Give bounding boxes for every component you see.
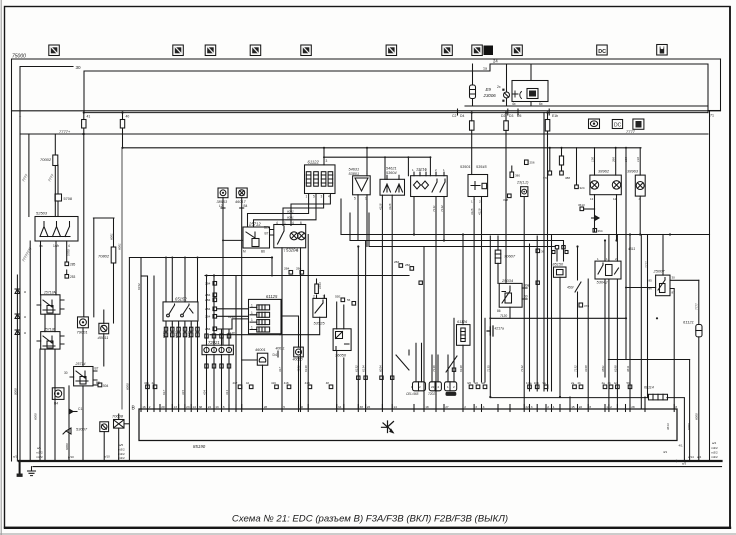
svg-text:27: 27 (445, 405, 449, 409)
svg-text:7132: 7132 (520, 365, 524, 372)
wires 5304J (605, 235, 617, 410)
wire 53204 drops (282, 248, 301, 409)
svg-text:22: 22 (579, 405, 583, 409)
svg-text:324: 324 (580, 186, 585, 190)
svg-text:E5: E5 (468, 381, 472, 385)
terminal left (17, 461, 23, 477)
wire line L1 (341, 234, 710, 236)
wire x28.9 (28, 134, 30, 217)
op-amp 54631 (353, 148, 371, 195)
svg-text:2B4: 2B4 (205, 293, 211, 297)
bottom right labels (663, 441, 718, 466)
svg-text:2B4: 2B4 (205, 327, 211, 331)
svg-text:4/1: 4/1 (663, 450, 668, 454)
svg-text:25007: 25007 (653, 269, 666, 274)
wires 72021 drops (207, 355, 230, 409)
svg-text:30: 30 (672, 276, 676, 280)
svg-text:86: 86 (497, 309, 501, 313)
svg-text:6001: 6001 (287, 216, 294, 220)
svg-text:D2: D2 (501, 114, 505, 118)
wires 36050 legs (337, 302, 344, 409)
wires 61122 drops (248, 194, 331, 228)
wire x100 x118 drops (104, 414, 119, 461)
wire line L2 (350, 213, 564, 248)
svg-text:D4: D4 (273, 353, 277, 357)
svg-text:5: 5 (313, 195, 315, 199)
svg-text:B4: B4 (244, 204, 248, 208)
svg-text:413: 413 (225, 390, 229, 395)
lamp 38963 (635, 175, 645, 196)
svg-text:m3/2: m3/2 (711, 446, 718, 450)
switch unit 65152 (163, 302, 198, 324)
wire bus 275 (205, 275, 409, 277)
icon circle box lower (52, 388, 64, 400)
wire extra verticals right field (236, 113, 645, 409)
svg-text:61121: 61121 (683, 320, 694, 325)
svg-text:4611: 4611 (628, 247, 635, 251)
stubs 2B4 row on 275 line (289, 264, 414, 274)
ECU connector B box (139, 405, 677, 441)
svg-text:38: 38 (199, 405, 203, 409)
svg-text:253: 253 (70, 275, 76, 279)
svg-text:52503: 52503 (36, 211, 48, 216)
wires below 25713B (45, 349, 55, 461)
svg-text:8: 8 (589, 405, 591, 409)
label n 71 (710, 114, 714, 118)
wire x630 (629, 235, 631, 410)
svg-text:16: 16 (142, 405, 146, 409)
svg-text:a: a (24, 290, 26, 294)
svg-text:136: 136 (624, 157, 628, 162)
svg-text:85190: 85190 (193, 444, 206, 449)
switch 450 (575, 247, 581, 378)
svg-text:E1b: E1b (552, 114, 558, 118)
relay 52503 (35, 217, 78, 242)
svg-text:4151: 4151 (297, 365, 301, 372)
wire 79001 legs (82, 134, 85, 367)
svg-text:72021: 72021 (428, 392, 437, 396)
svg-text:2B4: 2B4 (394, 260, 400, 264)
svg-text:7132: 7132 (440, 205, 444, 212)
wire 6148 line (210, 334, 280, 336)
svg-text:378: 378 (503, 198, 508, 202)
svg-text:71: 71 (710, 114, 714, 118)
svg-text:a/1: a/1 (37, 446, 42, 450)
wires 25007 bottom (625, 280, 699, 409)
svg-text:7131: 7131 (432, 205, 436, 212)
svg-text:1a: 1a (483, 67, 487, 71)
svg-text:53501: 53501 (460, 165, 471, 169)
wire x490 (489, 236, 491, 397)
wire x129.4 (128, 258, 130, 461)
svg-text:28: 28 (264, 405, 268, 409)
stub 364 (593, 229, 597, 233)
svg-text:B6: B6 (261, 250, 265, 254)
svg-text:41B: 41B (305, 381, 310, 385)
svg-text:30a: 30a (524, 284, 530, 288)
icon 23(1,2) (516, 181, 528, 185)
svg-text:54631: 54631 (349, 168, 360, 172)
svg-text:4: 4 (68, 244, 70, 248)
fuse 70802 (111, 247, 116, 323)
stub 285 (65, 262, 69, 266)
label 75000 (12, 54, 26, 60)
svg-text:23006: 23006 (483, 93, 497, 98)
svg-text:5700: 5700 (67, 249, 71, 256)
svg-text:30: 30 (76, 65, 82, 70)
svg-text:2b: 2b (578, 381, 582, 385)
wire x576 (575, 148, 579, 189)
icon 79001 (78, 317, 89, 328)
svg-text:m3/2: m3/2 (711, 451, 718, 455)
icon box row2 a (589, 119, 600, 129)
wire 7777 diag marks (21, 173, 55, 263)
svg-text:4198: 4198 (584, 365, 588, 372)
svg-text:E6: E6 (475, 381, 479, 385)
svg-text:4118: 4118 (378, 203, 382, 210)
svg-text:3: 3 (531, 405, 533, 409)
svg-text:Схема № 21: EDC (разъем B) F3A: Схема № 21: EDC (разъем B) F3A/F3B (ВКЛ)… (232, 514, 508, 525)
wires connector feeds (416, 343, 454, 382)
wire x341 (340, 199, 342, 235)
wire x358 x365 (358, 241, 365, 410)
svg-text:26: 26 (367, 405, 371, 409)
fuse F-E1 (545, 113, 550, 391)
svg-text:5304J: 5304J (597, 279, 609, 284)
svg-text:D5: D5 (517, 114, 521, 118)
svg-text:7130: 7130 (500, 314, 507, 318)
svg-text:450/: 450/ (567, 286, 575, 290)
svg-text:7: 7 (284, 249, 286, 253)
svg-text:1: 1 (553, 405, 555, 409)
relay 25714 (70, 367, 97, 386)
svg-text:4: 4 (276, 221, 278, 225)
svg-text:434: 434 (203, 390, 207, 395)
svg-text:18: 18 (425, 405, 429, 409)
fuse small drop (559, 148, 563, 175)
svg-text:24: 24 (493, 59, 498, 64)
resistor 61126 (457, 325, 471, 346)
icon 38963L (218, 188, 228, 198)
wires below 52503 (30, 241, 66, 461)
svg-text:7777: 7777 (626, 129, 636, 134)
lamp unit 38962 (590, 175, 621, 195)
svg-text:22: 22 (431, 385, 435, 389)
svg-text:285: 285 (70, 263, 76, 267)
node C1 (69, 409, 77, 414)
bus line 30-feed top (12, 59, 721, 111)
svg-text:53604: 53604 (386, 171, 397, 175)
wire x121.3 long (121, 148, 123, 409)
svg-text:30: 30 (300, 405, 304, 409)
wire line 397 (490, 398, 684, 461)
svg-text:25714: 25714 (75, 362, 86, 366)
wire B4 drop (240, 198, 257, 360)
svg-text:8: 8 (675, 405, 677, 409)
wire x141 (140, 258, 142, 409)
wire x625 (625, 148, 627, 318)
svg-text:5708: 5708 (64, 197, 72, 201)
svg-text:431: 431 (144, 381, 149, 385)
svg-text:7777: 7777 (694, 303, 698, 310)
stub 380 (510, 166, 514, 178)
svg-text:1: 1 (251, 303, 253, 307)
relay 23006 contact (502, 64, 521, 106)
wire x698.8 column (698, 280, 700, 324)
svg-text:0000: 0000 (13, 388, 17, 395)
svg-text:7135: 7135 (486, 365, 490, 372)
svg-text:6000: 6000 (694, 413, 698, 420)
svg-text:7136: 7136 (432, 365, 436, 372)
svg-text:40011: 40011 (98, 335, 109, 340)
svg-text:6000: 6000 (65, 443, 69, 450)
wire long mid line A (7777) (20, 133, 708, 135)
svg-text:L2: L2 (219, 204, 223, 208)
ground symbol (28, 467, 36, 476)
relay 25713A (37, 295, 64, 314)
svg-text:1: 1 (323, 294, 325, 298)
svg-text:13: 13 (215, 405, 219, 409)
label 40011 D4 (273, 346, 285, 357)
svg-text:132: 132 (636, 157, 640, 162)
svg-text:4a: 4a (602, 381, 606, 385)
wire labels mid verticals (137, 283, 691, 430)
wire 85150 drop (559, 277, 561, 397)
resistor pack 61122 (305, 165, 336, 194)
svg-text:a/1: a/1 (13, 455, 18, 459)
label 6000 wires left (13, 233, 129, 450)
svg-text:4614: 4614 (666, 423, 670, 430)
svg-text:m3/2: m3/2 (36, 455, 43, 459)
svg-text:28: 28 (631, 405, 635, 409)
svg-text:2B4: 2B4 (296, 267, 302, 271)
svg-text:B7: B7 (265, 232, 269, 236)
svg-text:25713A: 25713A (43, 291, 56, 295)
svg-text:DC: DC (598, 49, 606, 55)
svg-text:1Ob: 1Ob (534, 381, 540, 385)
svg-text:13: 13 (174, 405, 178, 409)
svg-text:6132: 6132 (354, 365, 358, 372)
svg-text:388: 388 (565, 176, 570, 180)
sensor 53501 (468, 175, 488, 200)
wire x40 (39, 349, 41, 461)
stub 504 (93, 383, 102, 387)
connector 72021 (202, 345, 233, 355)
svg-text:D4: D4 (460, 114, 464, 118)
svg-text:p/10: p/10 (68, 455, 74, 459)
wire extra verticals left (141, 276, 154, 409)
bottom left labels (13, 443, 125, 460)
svg-text:4116: 4116 (388, 203, 392, 210)
svg-text:40: 40 (126, 115, 130, 119)
svg-text:364: 364 (598, 229, 603, 233)
svg-text:6: 6 (300, 221, 302, 225)
svg-text:6136: 6136 (304, 365, 308, 372)
svg-text:1: 1 (251, 318, 253, 322)
fuse F-C2 (470, 113, 475, 175)
svg-text:2x: 2x (497, 85, 501, 89)
svg-text:56: 56 (347, 298, 351, 302)
svg-text:417: 417 (278, 367, 282, 372)
svg-text:DC: DC (614, 123, 622, 129)
svg-text:a: a (24, 315, 26, 319)
svg-text:20: 20 (161, 405, 165, 409)
svg-text:C2: C2 (452, 114, 456, 118)
relay 5304J (595, 261, 621, 279)
stub 378 drop (548, 148, 552, 175)
svg-text:m3/2: m3/2 (36, 451, 43, 455)
svg-text:3: 3 (321, 195, 323, 199)
svg-text:4a: 4a (152, 381, 156, 385)
svg-text:1043: 1043 (318, 282, 322, 289)
wire x529 x537 (530, 236, 538, 391)
pin ticks on bus third (458, 109, 550, 115)
node 30 stub (20, 67, 73, 462)
svg-text:2: 2 (464, 405, 466, 409)
relay 25713B (37, 332, 64, 350)
top bus rectangle (84, 64, 708, 113)
diode 53007 (63, 428, 71, 434)
wire feed line 157 (324, 157, 430, 179)
diode column x17.4 (15, 275, 20, 461)
svg-text:53545: 53545 (476, 165, 487, 169)
svg-text:C1: C1 (78, 407, 82, 411)
svg-text:a/14: a/14 (688, 455, 694, 459)
wire x608.9 (608, 279, 610, 409)
svg-text:4115: 4115 (470, 208, 474, 215)
stubs 55E 56 (341, 298, 356, 305)
svg-text:30: 30 (64, 371, 68, 375)
svg-text:53007: 53007 (76, 427, 88, 432)
wire line L3 (369, 213, 555, 247)
junction dots on buses (18, 112, 677, 463)
svg-text:3: 3 (475, 405, 477, 409)
svg-text:380: 380 (515, 174, 520, 178)
svg-text:2B4: 2B4 (284, 267, 290, 271)
relay 25712 (222, 227, 274, 248)
svg-text:2B4: 2B4 (205, 315, 211, 319)
icon box row2 c (633, 119, 644, 129)
svg-text:13: 13 (590, 197, 594, 201)
stub row above ECU (146, 385, 632, 389)
svg-text:6000: 6000 (687, 423, 691, 430)
svg-text:6143: 6143 (228, 315, 235, 319)
svg-text:24: 24 (208, 405, 212, 409)
wires 53501 drops (474, 200, 481, 383)
svg-text:14: 14 (393, 405, 397, 409)
svg-text:4119: 4119 (478, 208, 482, 215)
unit 85150 (555, 246, 565, 262)
fuse 70607 (495, 236, 501, 283)
svg-text:a: a (24, 331, 26, 335)
stub ma row (552, 251, 568, 254)
svg-text:4: 4 (292, 221, 294, 225)
svg-text:6000: 6000 (34, 413, 38, 420)
svg-text:70802: 70802 (98, 254, 110, 259)
svg-text:2B4: 2B4 (205, 307, 211, 311)
svg-text:256: 256 (530, 161, 535, 165)
svg-text:6134: 6134 (362, 365, 366, 372)
svg-text:a/4: a/4 (697, 455, 702, 459)
fuse 70008 (114, 420, 129, 429)
resistor 61121 (696, 325, 702, 462)
svg-text:M: M (243, 250, 246, 254)
svg-text:7777+: 7777+ (59, 129, 71, 134)
svg-text:2: 2 (547, 405, 549, 409)
wires 72021 feeds (207, 276, 230, 345)
svg-text:46001: 46001 (255, 348, 266, 352)
svg-text:9: 9 (297, 249, 299, 253)
svg-text:5b: 5b (627, 381, 631, 385)
wire x710.7 (709, 111, 711, 462)
svg-text:B4: B4 (54, 402, 58, 406)
wire label blobs 65152 (164, 327, 199, 337)
relay 25007 (656, 235, 670, 296)
svg-text:22: 22 (525, 405, 529, 409)
svg-text:3: 3 (326, 159, 328, 163)
wire feed 257 (129, 258, 272, 277)
svg-text:6001: 6001 (110, 233, 114, 240)
svg-text:4: 4 (328, 195, 330, 199)
svg-text:23: 23 (186, 405, 190, 409)
svg-text:53525: 53525 (314, 321, 326, 326)
svg-text:7777: 7777 (645, 261, 649, 268)
svg-text:6000: 6000 (125, 383, 129, 390)
svg-text:4: 4 (483, 405, 485, 409)
resistor 68114 (649, 394, 668, 400)
fuse 41 (82, 113, 86, 134)
stubs column 2B4 left of 61125 (213, 282, 217, 331)
svg-text:4c: 4c (614, 381, 618, 385)
wire left main bus vertical (11, 59, 13, 461)
svg-text:85150: 85150 (553, 263, 564, 267)
svg-text:2: 2 (149, 405, 151, 409)
node arrow (592, 215, 600, 220)
svg-text:E9: E9 (486, 87, 492, 92)
stub 378c (579, 303, 583, 307)
svg-text:2: 2 (313, 294, 315, 298)
svg-text:6148: 6148 (228, 331, 235, 335)
wire bus secondary (465, 105, 708, 107)
wire long mid line B (123, 147, 642, 149)
svg-text:61126: 61126 (457, 320, 468, 324)
fuse E9 (470, 64, 476, 106)
svg-text:2B4: 2B4 (205, 282, 211, 286)
svg-text:4611: 4611 (626, 365, 630, 372)
symbol K in ECU (382, 421, 394, 433)
svg-text:70002: 70002 (40, 157, 52, 162)
relay 53525 (280, 295, 327, 335)
svg-text:1: 1 (606, 405, 608, 409)
wire x551 (551, 235, 553, 392)
svg-text:B2k: B2k (264, 225, 270, 229)
svg-text:6198: 6198 (613, 365, 617, 372)
fuse F-D2 (504, 113, 509, 284)
svg-text:a/5: a/5 (119, 443, 124, 447)
svg-text:61122: 61122 (308, 159, 320, 164)
svg-text:34: 34 (338, 405, 342, 409)
stub 256 (525, 160, 529, 165)
svg-text:38963: 38963 (627, 169, 639, 174)
icon 40011L (99, 323, 109, 334)
svg-text:B7: B7 (95, 367, 99, 371)
svg-text:m3/2: m3/2 (711, 455, 718, 459)
svg-text:70008: 70008 (112, 414, 124, 419)
svg-text:40010: 40010 (293, 358, 303, 362)
top connector icon row (49, 45, 667, 56)
label 46001 + icon (257, 353, 268, 365)
svg-text:1Oa: 1Oa (526, 381, 532, 385)
